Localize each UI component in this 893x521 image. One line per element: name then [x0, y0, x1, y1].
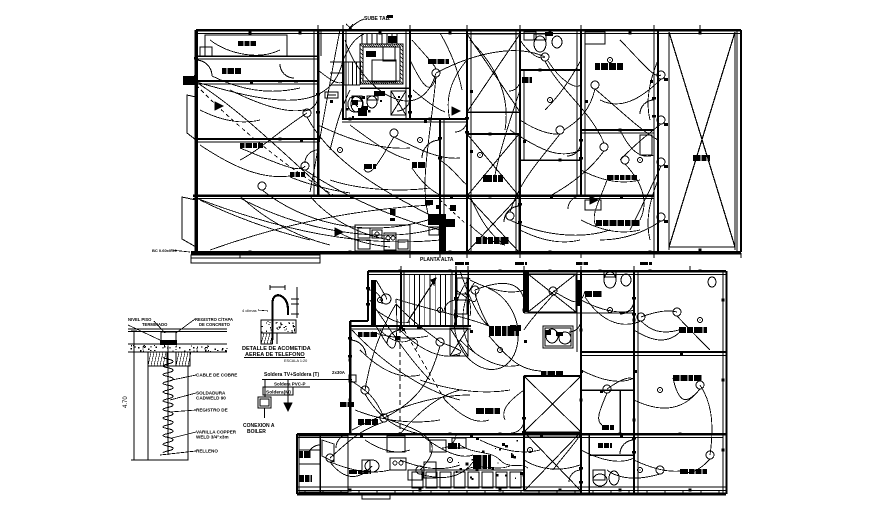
- svg-text:PLANTA ALTA: PLANTA ALTA: [420, 257, 454, 263]
- svg-text:TERMINADO: TERMINADO: [142, 322, 168, 327]
- svg-text:4.70: 4.70: [123, 396, 129, 408]
- svg-text:WELD 3/4"x3m: WELD 3/4"x3m: [196, 435, 229, 440]
- svg-text:DE CONCRETO: DE CONCRETO: [199, 322, 231, 327]
- svg-text:RELLENO: RELLENO: [196, 449, 218, 454]
- svg-text:4 climas: 4 climas: [242, 308, 257, 313]
- svg-text:Soldera(M): Soldera(M): [266, 390, 291, 396]
- svg-text:CABLE DE COBRE: CABLE DE COBRE: [196, 373, 237, 378]
- svg-text:Soldera TV+Soldera (T): Soldera TV+Soldera (T): [264, 372, 319, 378]
- svg-text:BOILER: BOILER: [247, 429, 266, 435]
- svg-text:REGISTRO DE: REGISTRO DE: [196, 408, 228, 413]
- svg-text:CADWELD 90: CADWELD 90: [196, 396, 226, 401]
- svg-text:SUBE TAB.: SUBE TAB.: [364, 16, 391, 22]
- svg-text:Soldera PVC-P: Soldera PVC-P: [274, 382, 306, 387]
- svg-text:ESCALA 1:20: ESCALA 1:20: [284, 359, 307, 363]
- svg-text:2x30A: 2x30A: [332, 370, 346, 375]
